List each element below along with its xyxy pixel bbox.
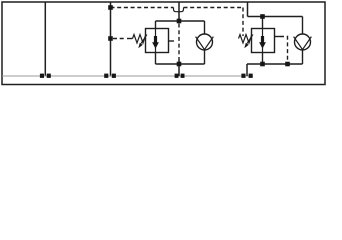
wire top header of CB1 assembly (y=21) <box>156 20 205 22</box>
port marker left of junction (45,76) <box>40 74 44 78</box>
valve CB2 internal arrow (poppet, pointing down) <box>259 36 266 49</box>
wire bottom header of CB2 assembly (y=64) <box>247 63 303 65</box>
pilot line dashed (hop to corner x=243) <box>184 7 244 9</box>
wire stub CB1 pilot right <box>169 40 175 42</box>
wire drop into CB1 top port <box>155 21 157 29</box>
wire vertical line B (x=110.5 from top border to bottom rail) <box>110 2 112 76</box>
port marker left of junction (179,76) <box>175 74 179 78</box>
adjustment arrow shaft CB2 <box>247 35 253 44</box>
check valve CV1 circle <box>197 34 213 50</box>
wire vertical line A (x=45 from top border to bottom rail) <box>44 2 46 76</box>
wire check valve CV2 bottom drop <box>302 50 304 64</box>
adjustment arrow shaft CB1 <box>141 35 147 44</box>
node dot (110.5,7.5) <box>108 5 113 10</box>
wire CB2 bottom port drop <box>262 53 264 65</box>
port marker right of junction (45,76) <box>47 74 51 78</box>
wire drop from CB2 bottom header to rail end <box>246 64 248 76</box>
port marker left of junction (110.5,76) <box>104 74 108 78</box>
pilot line dashed (node 110.5,7.5 to hop) <box>111 7 174 9</box>
wire drop into check valve CV2 top <box>302 17 304 35</box>
wire top header of CB2 assembly (y=16.5) <box>248 16 303 18</box>
wire CB1 bottom port drop <box>155 53 157 65</box>
enclosure border <box>2 2 325 85</box>
valve CB1 internal flow line <box>155 29 157 53</box>
check valve CV1 seat V <box>196 37 214 50</box>
spring of valve CB2 <box>239 35 252 44</box>
wire stub CB2 pilot right <box>275 36 281 38</box>
node dot (179,21) <box>177 19 182 24</box>
valve CB1 internal arrow (poppet, pointing down) <box>152 36 159 49</box>
node dot (287.5,64) <box>285 62 290 67</box>
valve CB2 internal flow line <box>262 29 264 53</box>
pilot line dashed corner to x=287.5 <box>280 37 288 62</box>
line hop (dashed pilot jumps wire x=179) <box>174 8 184 12</box>
node dot (179,64) <box>177 62 182 67</box>
pilot line dashed to spring of CB1 (from node 110.5,38.5) <box>113 38 126 40</box>
port marker left of rail end junction (247,76) <box>241 74 245 78</box>
pilot line dashed vertical at x=179 <box>178 24 180 60</box>
valve CB1 body <box>146 29 169 53</box>
wire bottom rail <box>2 75 253 77</box>
wire check valve CV1 bottom drop <box>204 50 206 64</box>
node dot (262.5,16.5) <box>260 14 265 19</box>
wire stub at spring of CB1 <box>127 38 133 40</box>
adjustment arrowhead CB2 <box>244 43 248 49</box>
node dot (110.5,38.5) <box>108 36 113 41</box>
wire drop into CB2 top port <box>262 17 264 29</box>
wire vertical feed to CB2 assembly (x=247.5 top) <box>247 2 249 17</box>
check valve CV2 circle <box>295 34 311 50</box>
adjustment arrowhead CB1 <box>138 43 142 49</box>
port marker right of rail end junction (247,76) <box>249 74 253 78</box>
check valve CV2 seat V <box>294 37 312 50</box>
port marker right of junction (110.5,76) <box>112 74 116 78</box>
wire bottom header of CB1 assembly (y=64) <box>156 63 205 65</box>
wire x=179 lower (to bottom rail) <box>178 60 180 77</box>
spring of valve CB1 <box>133 35 146 44</box>
wire vertical feed to valve CB1 (x=179 top) <box>178 2 180 21</box>
port marker right of junction (179,76) <box>181 74 185 78</box>
wire drop into check valve CV1 top <box>204 21 206 34</box>
valve CB2 body <box>252 29 275 53</box>
pilot line dashed drop to spring of CB2 <box>242 8 244 37</box>
node dot (262.5,64) <box>260 62 265 67</box>
